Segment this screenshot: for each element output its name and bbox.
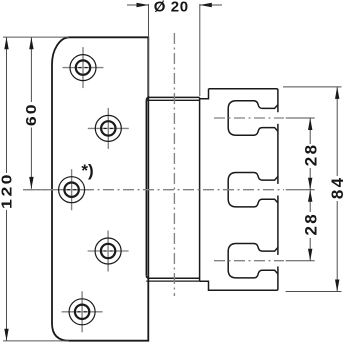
svg-text:84: 84 (328, 177, 343, 199)
knuckle 1 centerline (214, 117, 284, 119)
knuckle 2 sleeve (228, 173, 278, 207)
hole H4 center mark (104, 250, 113, 252)
comb right edge segment between knuckle 1 and knuckle 2 (277, 124, 279, 184)
plate bottom extension line (3, 340, 69, 342)
hole H5 center mark (78, 311, 87, 313)
plate top extension line (3, 36, 69, 38)
hinge leaf plate outline (52, 37, 148, 340)
svg-text:Ø 20: Ø 20 (154, 0, 189, 16)
svg-text:*): *) (81, 161, 93, 180)
hole H1 (70, 55, 96, 81)
dimension 28 (upper): line with arrows (309, 118, 311, 144)
hole H2 crosshair (88, 108, 129, 149)
hole H4 (95, 238, 121, 264)
knuckle centerline extensions (right) (286, 117, 315, 119)
dimension Ø20: right shaft and arrow (200, 4, 222, 6)
hole H2 center mark (104, 127, 113, 129)
hole H5 (69, 299, 95, 325)
barrel (knuckle column) top edge (146, 97, 199, 100)
hole H5 crosshair (62, 291, 103, 332)
hole H3 crosshair (51, 169, 92, 210)
barrel second bottom line (146, 280, 199, 282)
dimension 84: extension lines (283, 86, 342, 88)
barrel vertical axis centerline (173, 33, 175, 296)
dimension 84: line with arrows (336, 87, 338, 176)
frame part (comb) top step (200, 89, 209, 99)
dimension 60/centerline left extension (23, 189, 47, 191)
barrel bottom corner and edge (146, 275, 199, 278)
barrel right edge (199, 97, 201, 281)
hole H4 crosshair (88, 231, 129, 272)
hole H3 (59, 177, 85, 203)
knuckle 3 centerline (214, 260, 284, 262)
main horizontal centerline (hinge axis through knuckle 2) (23, 189, 284, 191)
hole H1 crosshair (63, 47, 104, 88)
comb right edge bottom segment (200, 267, 278, 291)
comb right edge segment between knuckle 2 and knuckle 3 (277, 196, 279, 255)
dimension 60: line with arrows (30, 37, 32, 102)
dimension Ø20: extension lines (148, 4, 150, 96)
knuckle 3 sleeve (228, 244, 278, 278)
dimension Ø20: left shaft and arrow (127, 4, 149, 6)
hole H1 center mark (79, 67, 88, 69)
barrel second top line (146, 99, 199, 101)
dimension 120: line with arrows (6, 37, 8, 173)
hole H2 (95, 115, 121, 141)
comb top edge (209, 89, 278, 112)
barrel left edge (145, 100, 147, 275)
dimension 28 (lower): line with arrows (309, 190, 311, 212)
svg-text:120: 120 (0, 175, 15, 209)
hole H3 center mark (67, 189, 76, 191)
knuckle 1 sleeve (228, 101, 278, 135)
